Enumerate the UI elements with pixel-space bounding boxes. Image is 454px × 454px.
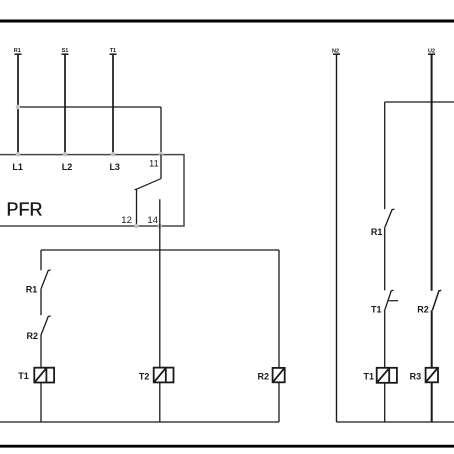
terminal R1 bar bbox=[15, 53, 22, 55]
svg-text:S1: S1 bbox=[62, 48, 69, 54]
coil T1 right (timer) bbox=[377, 368, 397, 383]
svg-text:R2: R2 bbox=[257, 371, 269, 381]
coil T1 (timer) bbox=[34, 368, 54, 383]
wire R1 vertical bbox=[17, 55, 19, 155]
node L1 bbox=[16, 152, 21, 157]
terminal N2 bar bbox=[333, 53, 340, 55]
contact R2 blade bbox=[41, 316, 51, 335]
svg-text:14: 14 bbox=[147, 215, 158, 226]
node 11 bbox=[159, 152, 164, 157]
wire control rung horizontal bbox=[41, 249, 279, 251]
coil R3 (relay) bbox=[426, 368, 438, 383]
wire between R1 and R2 contacts bbox=[40, 289, 42, 315]
wire R1 to PFR terminal 11 horizontal bbox=[18, 106, 161, 108]
wire left bottom rail bbox=[0, 421, 279, 423]
contact T1 delay mark bbox=[389, 300, 399, 302]
wire 12 bbox=[136, 189, 138, 226]
svg-text:11: 11 bbox=[149, 159, 159, 170]
node 14 bbox=[158, 224, 163, 229]
coil T2 (timer) bbox=[154, 368, 174, 383]
bottom border line bbox=[0, 445, 454, 448]
coil R2 (relay) bbox=[273, 368, 285, 382]
svg-text:T2: T2 bbox=[139, 371, 150, 381]
wire T1 coil to bottom rail bbox=[40, 383, 42, 423]
wire right branch1 drop bbox=[384, 102, 386, 209]
wire U2 vertical upper bbox=[431, 55, 433, 291]
wire T1 contact to T1 coil bbox=[384, 309, 386, 367]
svg-text:R1: R1 bbox=[14, 48, 21, 54]
svg-text:PFR: PFR bbox=[7, 200, 43, 220]
wire R2 contact to T1 coil bbox=[40, 335, 42, 368]
node 12 bbox=[134, 224, 139, 229]
svg-text:R1: R1 bbox=[371, 227, 383, 237]
svg-text:12: 12 bbox=[121, 215, 132, 226]
terminal S1 bar bbox=[62, 53, 69, 55]
svg-text:L2: L2 bbox=[62, 162, 73, 172]
svg-text:T1: T1 bbox=[371, 305, 382, 315]
svg-text:R2: R2 bbox=[417, 305, 429, 315]
svg-text:R1: R1 bbox=[26, 284, 38, 294]
svg-text:T1: T1 bbox=[18, 371, 29, 381]
wire T1 coil to bottom rail bbox=[384, 383, 386, 422]
contact 11-12 blade bbox=[135, 179, 162, 190]
svg-text:R3: R3 bbox=[410, 371, 422, 381]
svg-text:U2: U2 bbox=[428, 48, 435, 54]
wire right branch drop to R2 coil bbox=[278, 250, 280, 368]
wire 14 down to T2 coil bbox=[159, 199, 161, 367]
top border line bbox=[0, 20, 454, 23]
svg-text:N2: N2 bbox=[332, 48, 339, 54]
contact T1 blade bbox=[385, 290, 394, 309]
wire drop to PFR terminal 11 bbox=[160, 107, 162, 154]
contact 11 common stub bbox=[160, 154, 162, 178]
wire R2 coil to bottom rail bbox=[278, 382, 280, 422]
wire T2 coil to bottom rail bbox=[159, 382, 161, 422]
node L3 bbox=[111, 152, 116, 157]
node L2 bbox=[63, 152, 68, 157]
wire right rung horizontal bbox=[385, 101, 454, 103]
contact R1 (right) blade bbox=[385, 209, 395, 227]
wire left branch drop bbox=[40, 250, 42, 270]
svg-text:T1: T1 bbox=[110, 48, 116, 54]
svg-text:T1: T1 bbox=[363, 371, 374, 381]
wire R3 coil to bottom rail bbox=[431, 382, 433, 422]
contact R1 blade bbox=[41, 270, 51, 289]
node junction R1/wire bbox=[16, 105, 21, 110]
svg-text:R2: R2 bbox=[26, 331, 38, 341]
svg-text:L1: L1 bbox=[12, 162, 23, 172]
contact R2 (on U2) blade bbox=[432, 290, 441, 310]
wire right bottom rail bbox=[337, 421, 454, 423]
wire S1 vertical bbox=[64, 55, 66, 155]
wire N2 vertical bbox=[336, 55, 338, 423]
wire between R1 and T1 contacts bbox=[384, 227, 386, 290]
wire U2 between contact and R3 coil bbox=[431, 310, 433, 368]
wire T1 vertical bbox=[112, 55, 114, 155]
svg-text:L3: L3 bbox=[109, 162, 120, 172]
PFR box bbox=[0, 155, 184, 226]
terminal T1 bar bbox=[110, 53, 117, 55]
terminal U2 bar bbox=[428, 53, 435, 55]
